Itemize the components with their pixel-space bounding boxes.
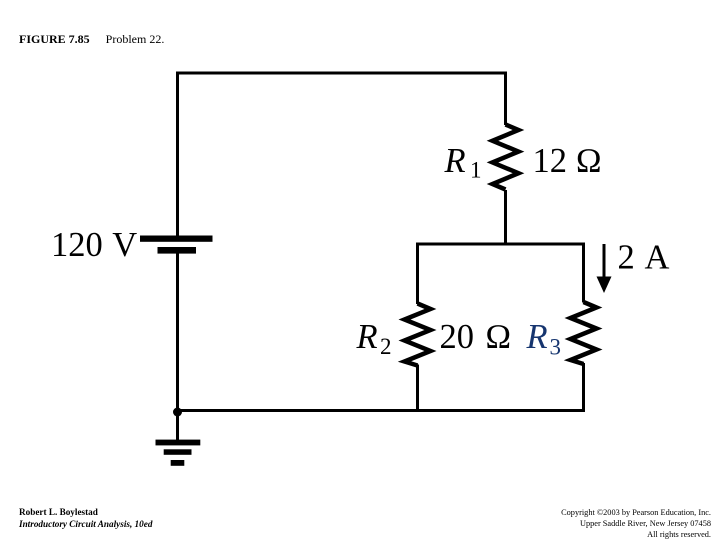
svg-text:120 V: 120 V <box>51 226 137 264</box>
svg-text:R: R <box>526 318 548 356</box>
svg-text:20 Ω: 20 Ω <box>440 318 512 356</box>
svg-text:2 A: 2 A <box>618 239 670 277</box>
svg-text:R: R <box>356 318 378 356</box>
svg-text:R: R <box>444 142 466 180</box>
svg-text:2: 2 <box>380 334 392 359</box>
svg-text:1: 1 <box>470 158 482 183</box>
svg-text:12 Ω: 12 Ω <box>533 142 603 180</box>
svg-text:3: 3 <box>550 335 562 360</box>
